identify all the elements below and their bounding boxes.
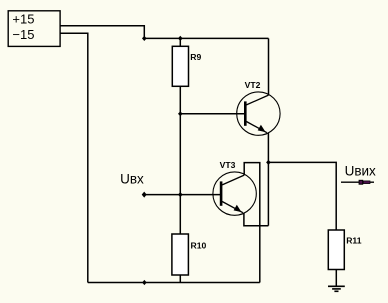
svg-text:VT2: VT2	[245, 80, 261, 90]
transistor VT2	[237, 92, 280, 135]
wire R10 bottom stub	[179, 275, 181, 283]
wire output to R11	[268, 162, 336, 230]
node junction input/divider	[178, 192, 183, 197]
resistor R11	[328, 230, 344, 270]
wire VT3 collector to bottom rail	[244, 163, 260, 283]
wire -15 from box down	[60, 33, 88, 282]
resistor R10	[172, 234, 189, 275]
transistor VT3	[213, 172, 256, 215]
svg-text:R9: R9	[190, 52, 201, 62]
node junction output	[266, 160, 271, 165]
node dot on bottom rail	[142, 280, 147, 285]
wire R9 bottom to base node	[179, 86, 181, 114]
svg-text:+15: +15	[12, 12, 34, 27]
node input terminal	[142, 192, 147, 198]
ground	[328, 286, 345, 291]
wire R9 top stub	[179, 38, 181, 46]
wire VT2 emitter down	[267, 133, 269, 226]
wire bottom -15 rail	[88, 282, 260, 284]
power supply box	[8, 11, 60, 47]
wire R11 to ground	[335, 270, 337, 287]
svg-text:R11: R11	[346, 235, 362, 245]
node junction top rail at R9	[178, 36, 183, 41]
node junction VT2 base	[178, 111, 183, 116]
resistor R9	[172, 46, 188, 86]
node junction top rail left	[142, 36, 147, 41]
svg-text:−15: −15	[12, 27, 34, 42]
svg-text:Uвих: Uвих	[345, 164, 376, 179]
wire divider vertical	[179, 114, 181, 234]
svg-text:Uвх: Uвх	[120, 171, 144, 186]
wire +15 from box to top rail	[60, 26, 144, 39]
output terminal arrow	[341, 180, 374, 185]
wire VT3 emitter to output node	[244, 213, 269, 226]
wire VT2 base	[180, 113, 244, 115]
svg-text:VT3: VT3	[220, 160, 236, 170]
wire VT2 collector to +15 rail	[268, 38, 270, 95]
svg-text:R10: R10	[191, 240, 207, 250]
wire input to VT3 base	[144, 194, 220, 196]
wire top +15 rail	[144, 37, 268, 39]
